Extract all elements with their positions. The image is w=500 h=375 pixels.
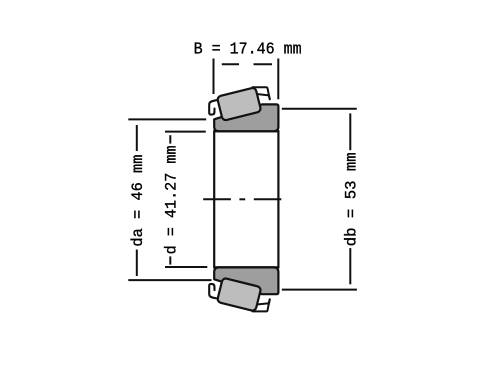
mirrored bottom section	[209, 267, 278, 311]
dimension B: dash segments	[222, 63, 239, 65]
svg-text:d = 41.27 mm: d = 41.27 mm	[163, 145, 181, 254]
dimension d: ticks	[165, 132, 207, 267]
roller	[217, 278, 261, 312]
roller	[217, 87, 261, 121]
inner ring (cone) section	[214, 104, 278, 131]
dimension da: ticks	[128, 119, 211, 280]
centre line (dash-dot)	[203, 198, 281, 200]
dimension db: ticks	[282, 109, 357, 290]
dimension d: hyphen segments	[169, 135, 171, 143]
bore rectangle	[214, 131, 278, 267]
dimension db: line segments	[349, 113, 351, 150]
cage hook (bottom left)	[209, 284, 217, 298]
inner ring (cone) section	[214, 267, 278, 294]
svg-text:B = 17.46 mm: B = 17.46 mm	[194, 41, 302, 60]
tapered roller bearing cone assembly, top section	[209, 87, 278, 131]
dimension da: line segments	[136, 125, 138, 151]
cage hook (top left)	[209, 100, 217, 114]
svg-text:da = 46 mm: da = 46 mm	[129, 155, 147, 247]
dimension B: extension lines	[214, 59, 279, 100]
cage prong (top right)	[253, 87, 270, 99]
svg-text:db = 53 mm: db = 53 mm	[343, 152, 361, 246]
cage prong (bottom right)	[253, 299, 270, 311]
